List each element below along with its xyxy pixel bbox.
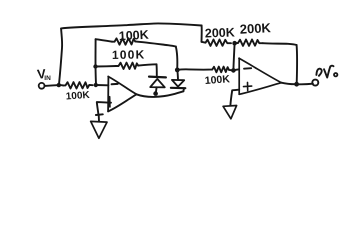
wire row2 from riser corner <box>96 39 112 42</box>
svg-text:IN: IN <box>44 75 51 82</box>
op-amp U1 plus sign <box>109 97 111 107</box>
node A <box>94 83 98 87</box>
resistor R6 100K (stage2) <box>211 67 232 73</box>
ground GND1 tick <box>96 113 103 116</box>
label Vin <box>36 66 51 82</box>
node U2 inverting input <box>231 68 236 73</box>
svg-text:100K: 100K <box>65 90 90 103</box>
resistor R3 200K (first) <box>202 40 232 46</box>
resistor R2 100K (upper feedback) <box>112 38 135 44</box>
wire node A to op-amp <box>96 84 109 86</box>
svg-text:100K: 100K <box>118 28 149 44</box>
terminal Vo <box>312 80 318 86</box>
wire D2 bar stub to output wire <box>182 88 185 91</box>
ground GND2 <box>223 106 237 119</box>
node diode junction <box>175 68 180 73</box>
resistor R5 100K (lower feedback) <box>116 63 138 69</box>
node A riser (input node up to feedback rows) <box>95 39 98 84</box>
svg-text:100K: 100K <box>112 47 146 62</box>
wire right feedback drop to output node <box>296 45 299 83</box>
terminal Vin <box>39 83 45 89</box>
ground GND1 <box>91 121 107 138</box>
wire row3 lead <box>96 65 117 68</box>
diode D2 anode lead <box>176 70 179 80</box>
wire U2 output <box>281 83 296 85</box>
wire 200K to right corner <box>263 43 297 45</box>
label Vo <box>316 66 333 78</box>
diode D2 cathode bar <box>171 87 185 90</box>
wire diode junction to stage2 resistor <box>177 68 209 70</box>
wire U1 output to diodes <box>137 91 184 97</box>
wire top rail <box>61 23 202 28</box>
node input junction <box>57 83 61 87</box>
wire row2 to corner <box>135 41 176 46</box>
diode D1 triangle (pointing up) <box>150 79 165 87</box>
diode D1 cathode bar <box>149 75 166 78</box>
wire input to node <box>45 84 57 87</box>
wire U1 plus input to ground <box>97 102 111 114</box>
resistor R4 200K (second) <box>235 40 263 46</box>
node row3 junction on riser <box>93 64 97 68</box>
op-amp U2 plus sign <box>244 82 252 90</box>
op-amp U2 <box>239 58 281 94</box>
op-amp U2 minus sign <box>244 67 251 70</box>
diode D1 anode lead <box>155 87 158 93</box>
svg-text:200K: 200K <box>239 20 271 37</box>
op-amp U1 minus sign <box>112 83 118 85</box>
node output junction <box>294 82 299 87</box>
node between 200K resistors <box>232 41 237 46</box>
wire U2 plus input to ground <box>230 90 239 106</box>
wire node A to U1 inverting input <box>59 84 64 86</box>
svg-text:200K: 200K <box>205 25 235 40</box>
op-amp U1 <box>108 77 136 112</box>
wire output node to terminal <box>297 83 313 86</box>
wire row3 to corner above D1 <box>138 64 156 65</box>
wire drop from row2 to diode junction <box>176 47 178 70</box>
diode D2 triangle (pointing down) <box>172 80 184 87</box>
node D1 anode to output wire <box>153 91 158 96</box>
wire drop to D1 <box>156 64 158 75</box>
wire top rail corner down to 200K <box>201 26 203 42</box>
wire node to U2 <box>233 69 239 70</box>
svg-text:100K: 100K <box>204 73 230 87</box>
ground GND1 lead <box>98 115 100 121</box>
label Vo subscript o <box>334 73 337 76</box>
resistor R1 100K input <box>63 82 93 88</box>
wire 200K node down to U2 inverting node <box>233 43 234 70</box>
wire riser from input node to top rail <box>59 29 62 85</box>
